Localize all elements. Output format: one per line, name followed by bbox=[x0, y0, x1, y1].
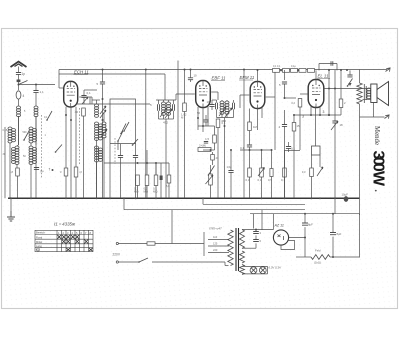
svg-text:50: 50 bbox=[197, 111, 201, 115]
label ECH 11 bbox=[74, 70, 90, 75]
wire V1 pins bottom bbox=[66, 107, 76, 199]
wire bbox=[253, 214, 255, 229]
svg-text:Rund: Rund bbox=[36, 235, 43, 239]
svg-text:MΩ: MΩ bbox=[153, 190, 157, 194]
svg-text:ℓ1 = 4335ικ: ℓ1 = 4335ικ bbox=[53, 222, 76, 227]
lamp La2 bbox=[259, 267, 266, 274]
wire bbox=[284, 97, 297, 99]
resistor 74 bbox=[74, 150, 82, 198]
node bbox=[18, 84, 20, 86]
coil IFT2 a bbox=[220, 100, 224, 114]
capacitor blob2 bbox=[160, 163, 163, 198]
svg-text:18: 18 bbox=[340, 123, 344, 127]
wire top2 bbox=[59, 74, 165, 100]
coil L1 bbox=[17, 106, 21, 117]
node bbox=[280, 69, 348, 71]
svg-text:7: 7 bbox=[49, 168, 51, 172]
coil L3 bbox=[12, 146, 20, 165]
transformer core bbox=[236, 228, 239, 271]
coil IFT1 a bbox=[162, 100, 166, 115]
wire top grid bbox=[59, 70, 63, 89]
label comma bbox=[375, 190, 377, 192]
svg-text:1,8: 1,8 bbox=[9, 170, 13, 174]
resistor Rd bbox=[281, 150, 286, 198]
wire bbox=[96, 140, 98, 199]
resistor R7 1M bbox=[248, 109, 258, 144]
gang dashed line 3 bbox=[79, 108, 81, 165]
svg-text:0,15: 0,15 bbox=[3, 129, 8, 132]
svg-text:1M: 1M bbox=[253, 125, 258, 129]
svg-text:8μF: 8μF bbox=[337, 232, 342, 236]
wire bbox=[18, 127, 20, 145]
svg-text:3: 3 bbox=[302, 115, 304, 119]
resistor R6 bbox=[205, 126, 216, 150]
resistor R4 bbox=[181, 70, 187, 199]
wire bbox=[30, 143, 32, 199]
svg-text:ℓ785–α47: ℓ785–α47 bbox=[208, 227, 222, 231]
capacitor tone bbox=[331, 115, 343, 131]
wire bbox=[19, 84, 37, 86]
label 500 bbox=[23, 131, 28, 134]
resistor box V4 bbox=[312, 146, 321, 155]
wire mains top bbox=[116, 242, 147, 244]
wire bbox=[243, 70, 245, 199]
svg-text:0,1: 0,1 bbox=[87, 91, 92, 95]
wire bbox=[334, 131, 336, 214]
wire HT top bbox=[242, 214, 274, 230]
gang dashed line bbox=[41, 115, 43, 178]
resistor Re bbox=[166, 163, 171, 198]
speaker cone bbox=[371, 82, 389, 106]
resistor R3 0,3M bbox=[153, 163, 158, 198]
resistor 1,8 bbox=[9, 164, 19, 198]
capacitor 36 bbox=[34, 168, 44, 174]
wire bbox=[35, 116, 37, 127]
svg-text:1,1: 1,1 bbox=[40, 90, 45, 94]
svg-text:6,3V 0,3A: 6,3V 0,3A bbox=[269, 266, 281, 270]
switch wave bbox=[120, 124, 126, 135]
ground bbox=[7, 211, 15, 221]
node 3 bbox=[302, 110, 325, 119]
wire bbox=[18, 116, 20, 127]
wire V4 pins bbox=[311, 106, 320, 146]
wire bbox=[217, 118, 234, 124]
wire bbox=[222, 113, 227, 198]
svg-text:Mende: Mende bbox=[373, 126, 380, 145]
choke Feld bbox=[311, 249, 330, 265]
tap 125 bbox=[208, 242, 229, 247]
capacitor 5p bbox=[96, 70, 105, 199]
resistor 41 bbox=[211, 152, 219, 165]
wire box loop bbox=[110, 99, 136, 144]
wire bbox=[35, 127, 37, 145]
wire bbox=[155, 163, 157, 175]
resistor R2 0,2M bbox=[144, 150, 149, 198]
svg-text:4: 4 bbox=[23, 94, 25, 98]
capacitor 8uF a bbox=[302, 214, 313, 238]
svg-text:EBF 11: EBF 11 bbox=[212, 76, 227, 81]
wire bbox=[334, 70, 336, 115]
resistor box C bbox=[308, 69, 315, 73]
node bbox=[102, 98, 104, 121]
svg-text:EL 11: EL 11 bbox=[318, 74, 329, 79]
wire V3 grid bbox=[240, 95, 249, 108]
svg-text:10: 10 bbox=[207, 100, 211, 104]
field coil bbox=[357, 70, 362, 199]
wire bbox=[171, 210, 173, 244]
capacitor 0,1 b bbox=[286, 142, 295, 152]
svg-text:(1μ: (1μ bbox=[40, 169, 44, 173]
trimmer bbox=[101, 129, 107, 137]
svg-text:125: 125 bbox=[213, 242, 218, 246]
svg-text:0,1: 0,1 bbox=[240, 146, 244, 150]
wire bbox=[150, 103, 174, 125]
svg-text:MΩ: MΩ bbox=[134, 190, 138, 194]
resistor R10 bbox=[339, 70, 346, 116]
coil L11 osc bbox=[102, 112, 106, 150]
svg-text:Feld: Feld bbox=[315, 249, 321, 253]
coil L2 bbox=[8, 127, 16, 143]
tube V1 ECH11 bbox=[64, 81, 78, 107]
wire bbox=[35, 116, 37, 198]
wire bbox=[293, 114, 341, 116]
switch band left bbox=[23, 131, 29, 141]
resistor R5 bbox=[216, 119, 226, 198]
capacitor 10uF bbox=[342, 193, 349, 202]
label netzteil bbox=[208, 227, 222, 231]
resistor ant shunt bbox=[16, 85, 24, 100]
wire top1 bbox=[59, 69, 387, 71]
wire bbox=[359, 214, 361, 258]
svg-text:0,1: 0,1 bbox=[222, 121, 226, 125]
label EL 11 bbox=[317, 74, 330, 79]
wire mains bottom bbox=[116, 261, 139, 263]
capacitor bbox=[133, 144, 138, 199]
svg-text:10μF: 10μF bbox=[342, 193, 349, 197]
svg-text:10: 10 bbox=[194, 74, 198, 78]
wire bbox=[284, 70, 286, 80]
svg-text:0,3: 0,3 bbox=[302, 170, 306, 174]
coil IFT1 b bbox=[167, 100, 171, 115]
svg-text:Mittel: Mittel bbox=[36, 240, 43, 244]
svg-text:AZ 11: AZ 11 bbox=[274, 224, 284, 228]
rectifier V5 AZ11 bbox=[273, 230, 288, 245]
capacitor det bbox=[203, 115, 208, 126]
trimmer bbox=[100, 110, 106, 118]
capacitor 0,1 V3 bbox=[240, 143, 252, 150]
wire below bus mid bbox=[123, 197, 305, 209]
trimmer IFT2 bbox=[219, 107, 226, 116]
svg-text:Lang: Lang bbox=[36, 244, 42, 248]
resistor Ra bbox=[246, 168, 252, 198]
svg-text:(1kΩ): (1kΩ) bbox=[314, 261, 321, 265]
wire lamps bbox=[242, 266, 268, 274]
wire V3 top pin bbox=[257, 69, 259, 82]
label 50b bbox=[23, 155, 26, 158]
capacitor 10p bbox=[188, 69, 197, 83]
trimmer bbox=[82, 97, 88, 104]
capacitor IFT1 right bbox=[173, 100, 175, 119]
switch osc2 bbox=[123, 122, 129, 132]
wire bbox=[36, 84, 55, 86]
wire bbox=[84, 90, 97, 104]
coil L9 osc bbox=[95, 100, 99, 117]
capacitor 0,4 bbox=[204, 142, 208, 144]
wire bbox=[9, 143, 11, 199]
wire bbox=[18, 82, 20, 85]
wire HT mid bbox=[242, 247, 256, 249]
node bbox=[35, 84, 37, 86]
fuse bbox=[147, 242, 204, 245]
capacitor 10p b bbox=[207, 100, 215, 110]
wire bbox=[359, 198, 361, 215]
svg-text:220V: 220V bbox=[113, 253, 121, 257]
chassis arrow right mid bbox=[385, 115, 390, 119]
resistor box 0,1uF bbox=[198, 144, 211, 152]
svg-text:2×(M): 2×(M) bbox=[199, 144, 206, 148]
svg-text:220: 220 bbox=[213, 248, 218, 252]
label AZ 11 bbox=[274, 224, 284, 228]
trimmer IFT1b bbox=[165, 109, 172, 118]
svg-text:MΩ: MΩ bbox=[144, 190, 148, 194]
wire V3 anode bbox=[266, 70, 275, 151]
capacitor IFT1 left bbox=[158, 100, 160, 119]
wire bbox=[198, 125, 215, 127]
coil L10 osc bbox=[95, 122, 103, 141]
wire bbox=[92, 100, 100, 104]
tube V2 EBF11 bbox=[196, 81, 211, 108]
label 0,2 bbox=[44, 116, 48, 119]
wire bbox=[35, 93, 37, 106]
node bbox=[304, 213, 334, 215]
capacitor HV b bbox=[253, 235, 261, 248]
capacitor 8uF b bbox=[330, 214, 342, 258]
choke wire left bbox=[296, 256, 311, 258]
capacitor C2 bbox=[33, 85, 44, 95]
label handwriting bbox=[53, 222, 76, 227]
svg-text:0,3: 0,3 bbox=[246, 178, 250, 182]
capacitor IFT2 left bbox=[216, 100, 218, 118]
svg-text:1,5: 1,5 bbox=[205, 137, 209, 141]
label 0,15 bbox=[3, 129, 8, 132]
chassis arrow right top bbox=[386, 68, 391, 72]
node bbox=[197, 117, 204, 127]
svg-text:1,0μ: 1,0μ bbox=[227, 165, 233, 169]
antenna bbox=[11, 62, 27, 68]
resistor Rb bbox=[258, 150, 265, 198]
svg-text:0,1: 0,1 bbox=[291, 147, 295, 151]
trimmer R11b bbox=[317, 155, 323, 176]
switch mains bbox=[138, 258, 228, 266]
wire bbox=[76, 104, 150, 198]
wire bbox=[18, 75, 20, 81]
wire V2 pins bbox=[198, 107, 208, 133]
switch band right2 bbox=[46, 111, 52, 121]
transformer primary bbox=[228, 230, 233, 266]
switch det bbox=[208, 166, 215, 176]
svg-text:40: 40 bbox=[75, 110, 79, 114]
capacitor HV a bbox=[253, 229, 261, 236]
svg-text:8μF: 8μF bbox=[308, 223, 313, 227]
svg-text:500: 500 bbox=[23, 131, 28, 134]
wire bbox=[285, 150, 301, 152]
label Mende bbox=[373, 126, 380, 145]
label 30b bbox=[3, 153, 6, 156]
wire bbox=[240, 149, 273, 151]
gang dashes 2 bbox=[114, 138, 116, 164]
wire bbox=[145, 70, 147, 199]
label EBF 11 bbox=[211, 76, 226, 81]
trimmer cap 350 bbox=[347, 70, 353, 86]
wire V3 pins bbox=[258, 108, 263, 131]
trimmer IFT2b bbox=[225, 108, 232, 117]
capacitor bbox=[118, 144, 123, 199]
switch osc bbox=[117, 131, 123, 150]
heater loop bbox=[281, 241, 295, 250]
resistor R11 bbox=[302, 155, 313, 198]
wire bbox=[10, 198, 12, 211]
wire below bus right bbox=[250, 213, 360, 215]
wire bbox=[156, 99, 176, 101]
resistor box A bbox=[273, 65, 290, 72]
transformer sec HT bbox=[240, 230, 245, 249]
bypass y63 bbox=[319, 61, 337, 70]
wire bbox=[261, 210, 263, 230]
wire bbox=[4, 127, 6, 198]
wire rect cathode bbox=[289, 237, 306, 239]
switch band right bbox=[55, 145, 62, 153]
coil IFT2 b bbox=[225, 100, 229, 114]
resistor R8 bbox=[291, 98, 301, 150]
wire bbox=[109, 144, 111, 199]
label 220V bbox=[113, 253, 121, 257]
tap 220 bbox=[208, 248, 229, 253]
resistor R osc bbox=[75, 108, 86, 198]
tube V4 EL11 bbox=[308, 70, 324, 107]
capacitor 0,1 bbox=[81, 90, 91, 104]
tap 110 bbox=[208, 235, 229, 240]
wire bbox=[304, 238, 306, 258]
ground bus bbox=[8, 197, 360, 199]
capacitor 5000 bbox=[279, 82, 287, 98]
wire below bus 2 bbox=[203, 198, 305, 204]
table tube chart bbox=[35, 230, 93, 252]
svg-text:0,1μ: 0,1μ bbox=[291, 65, 296, 68]
wire bbox=[177, 61, 179, 199]
svg-text:300 W: 300 W bbox=[370, 151, 387, 187]
resistor R1 0,1M bbox=[134, 175, 139, 198]
trimmer IFT1 bbox=[160, 108, 167, 117]
label 5p2 bbox=[24, 110, 26, 113]
speaker transformer bbox=[364, 84, 371, 103]
wire V2 anode bbox=[211, 92, 218, 100]
wire bbox=[176, 94, 195, 100]
tap bracket bbox=[203, 232, 205, 256]
wire bbox=[203, 149, 215, 151]
volume pot bbox=[206, 165, 214, 198]
label 300 W bbox=[370, 151, 387, 187]
trimmer bbox=[100, 106, 106, 114]
svg-text:110: 110 bbox=[213, 235, 218, 239]
wire bbox=[360, 103, 385, 118]
svg-text:0,5: 0,5 bbox=[268, 178, 272, 182]
capacitor antenna series bbox=[16, 72, 25, 76]
wire bbox=[249, 149, 251, 168]
coil L6 bbox=[29, 127, 37, 143]
lamp La1 bbox=[250, 267, 257, 274]
wire bbox=[328, 70, 330, 116]
switch wave2 bbox=[132, 139, 138, 146]
label 3 bbox=[0, 0, 1, 1]
transformer sec mid bbox=[240, 251, 245, 263]
svg-text:3: 3 bbox=[323, 110, 325, 114]
coil L12 osc bbox=[95, 146, 103, 198]
transformer sec heater bbox=[240, 265, 245, 275]
capacitor 1,0uF bbox=[227, 149, 234, 198]
label EFM 11 bbox=[239, 75, 255, 80]
choke wire right bbox=[330, 256, 360, 258]
wire bbox=[212, 99, 217, 101]
wire V1 pin anode bbox=[79, 97, 92, 100]
svg-text:5,6: 5,6 bbox=[166, 184, 170, 188]
wire V4 grid bbox=[300, 93, 308, 95]
svg-text:Bereich: Bereich bbox=[36, 231, 45, 235]
wire bbox=[104, 162, 169, 164]
coil L5 bbox=[34, 106, 38, 117]
switch S1 bbox=[18, 81, 28, 86]
capacitor 50 bbox=[197, 111, 201, 115]
resistor R9 bbox=[292, 115, 300, 198]
wire V4 plate to OT bbox=[324, 88, 371, 100]
wire bbox=[18, 67, 20, 73]
svg-text:1p: 1p bbox=[22, 72, 26, 76]
svg-text:EFM 11: EFM 11 bbox=[240, 75, 255, 80]
node bbox=[65, 114, 72, 121]
capacitor 40 bbox=[278, 110, 287, 198]
capacitor IFT2 right bbox=[233, 100, 235, 118]
label 1k bbox=[45, 134, 47, 137]
wire bbox=[17, 116, 19, 146]
capacitor blob bbox=[17, 80, 21, 83]
coil L7 bbox=[29, 146, 37, 165]
svg-text:0,1 0,1: 0,1 0,1 bbox=[273, 65, 281, 68]
resistor 3 bbox=[49, 168, 68, 199]
tube V3 EFM11 bbox=[250, 82, 265, 109]
label lamps bbox=[269, 266, 281, 270]
svg-text:0,1: 0,1 bbox=[258, 178, 262, 182]
wire bbox=[18, 99, 20, 106]
wire bbox=[164, 115, 169, 199]
svg-text:0,2: 0,2 bbox=[291, 101, 295, 105]
capacitor Cc bbox=[268, 150, 273, 198]
resistor box B bbox=[291, 65, 307, 72]
